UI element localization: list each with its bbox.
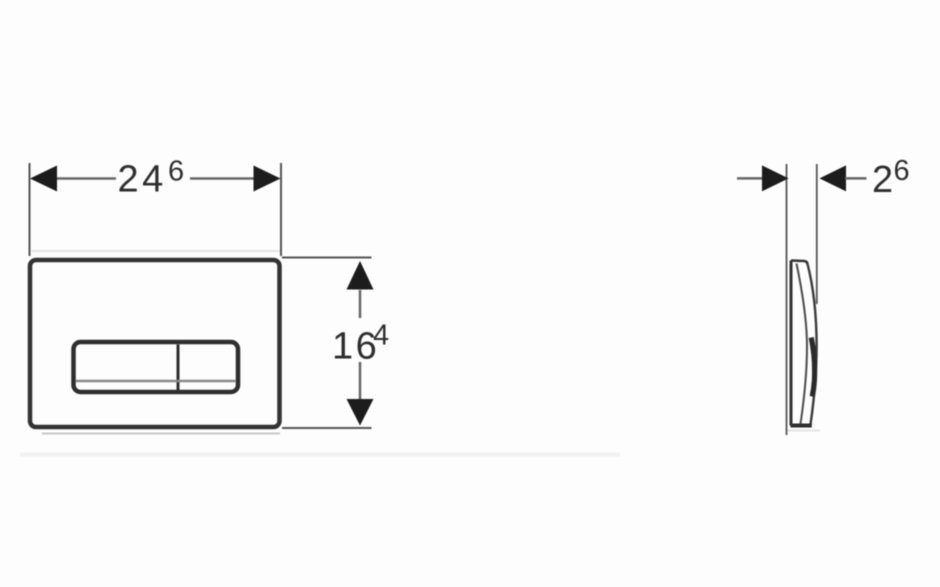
svg-text:24: 24: [118, 159, 167, 201]
svg-text:4: 4: [373, 320, 389, 352]
svg-text:6: 6: [894, 155, 910, 187]
svg-text:6: 6: [168, 156, 184, 188]
svg-text:2: 2: [872, 159, 893, 201]
